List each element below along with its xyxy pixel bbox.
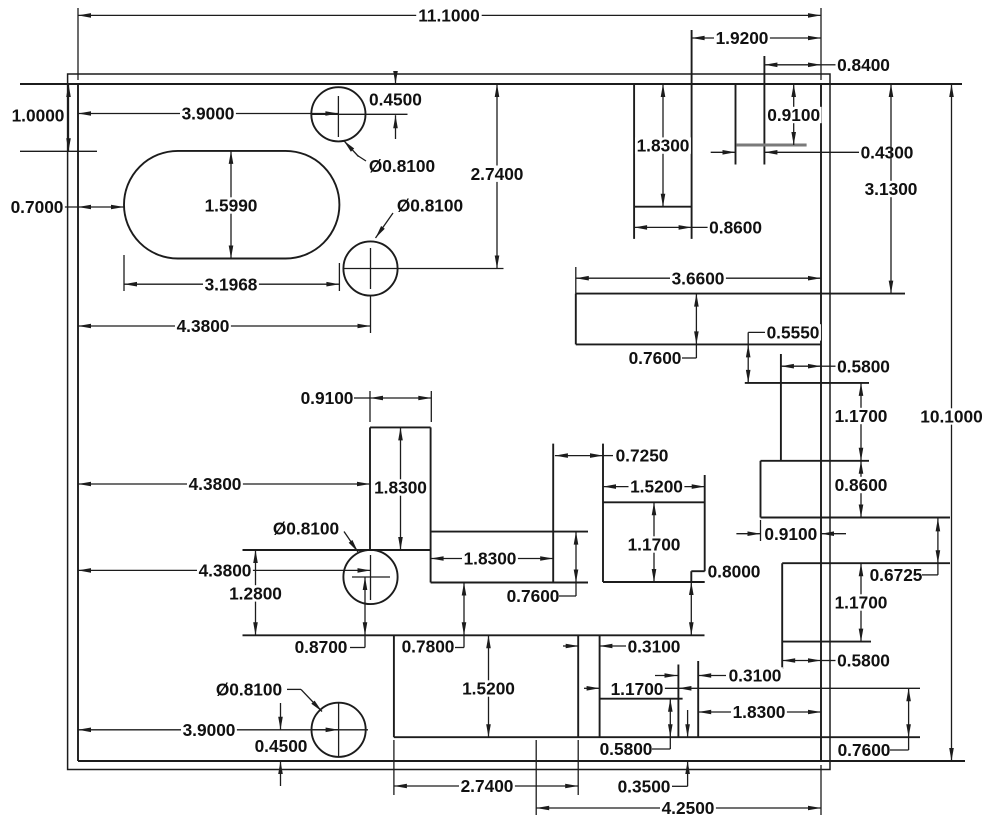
- svg-text:1.5990: 1.5990: [205, 196, 258, 216]
- svg-text:0.9100: 0.9100: [764, 524, 817, 544]
- dim 3.6600: [576, 268, 821, 288]
- dim 1.1700 right A: [833, 383, 889, 461]
- svg-text:0.9100: 0.9100: [767, 105, 820, 125]
- svg-text:1.8300: 1.8300: [374, 478, 427, 498]
- ext below bottom pocket right: [577, 740, 579, 795]
- dim 2.7400 left: [469, 84, 525, 269]
- dim 0.9100 mid: [299, 388, 431, 408]
- svg-text:0.3100: 0.3100: [729, 666, 782, 686]
- ext below bottom pocket left: [393, 740, 395, 795]
- dim 1.5200 mid rect: [603, 477, 705, 497]
- dim 0.8400: [764, 55, 891, 75]
- dim 0.8600 top cutout: [634, 218, 763, 238]
- svg-text:1.8300: 1.8300: [733, 702, 786, 722]
- ext for 4.3800 first: [370, 296, 372, 333]
- right rect B left edge: [760, 461, 762, 518]
- dim 1.1700 right C: [833, 563, 889, 641]
- wide pocket bottom edge: [576, 343, 821, 345]
- dim 1.8300 L-pocket horizontal: [431, 549, 554, 569]
- C4 center mark horizontal: [311, 729, 368, 731]
- extension below part right edge: [820, 765, 822, 815]
- dim 0.5800 step block: [598, 699, 673, 759]
- top cutout left edge: [633, 84, 635, 239]
- dim 0.3100 first: [563, 637, 682, 657]
- dim 0.4500 bottom: [253, 703, 309, 786]
- obround slot: [124, 151, 339, 259]
- svg-text:4.2500: 4.2500: [662, 798, 715, 818]
- svg-text:0.8600: 0.8600: [835, 475, 888, 495]
- dim 0.9100 top right: [766, 84, 822, 145]
- top slit right line with ext: [763, 56, 765, 165]
- dim 0.7800: [400, 583, 466, 657]
- dim 1.0000: [10, 84, 71, 151]
- dim 1.2800: [228, 550, 284, 635]
- leader Ø0.8100 C2: [376, 196, 465, 238]
- dim 0.7250: [555, 446, 670, 466]
- leader Ø0.8100 C3: [271, 519, 358, 552]
- svg-text:1.1700: 1.1700: [611, 679, 664, 699]
- top cutout bottom edge: [634, 206, 692, 208]
- mid rect top edge: [603, 501, 705, 503]
- mid rect left edge with ext: [602, 444, 604, 582]
- svg-text:0.3100: 0.3100: [628, 637, 681, 657]
- svg-text:0.7600: 0.7600: [507, 586, 560, 606]
- mid rect right edge with ext: [704, 475, 706, 571]
- svg-text:0.8600: 0.8600: [709, 218, 762, 238]
- svg-text:0.5800: 0.5800: [837, 356, 890, 376]
- step block left edge: [599, 635, 601, 737]
- dim 3.9000 bottom: [78, 720, 339, 740]
- ext below slot right: [338, 263, 340, 291]
- svg-text:3.1300: 3.1300: [865, 179, 918, 199]
- ext below right rect B left: [760, 520, 762, 541]
- wide pocket top edge with ext: [576, 293, 905, 295]
- C1 center mark horizontal / ext: [311, 113, 408, 115]
- dim 2.7400 bottom: [394, 776, 578, 796]
- svg-text:Ø0.8100: Ø0.8100: [369, 156, 435, 176]
- dim 0.8700: [293, 577, 367, 657]
- dim 0.6725: [868, 518, 940, 585]
- C3 center mark horizontal: [352, 576, 390, 578]
- svg-text:1.2800: 1.2800: [229, 584, 282, 604]
- ext below slot left: [123, 255, 125, 291]
- svg-text:0.6725: 0.6725: [870, 565, 923, 585]
- svg-text:3.6600: 3.6600: [672, 268, 725, 288]
- circle hole C3: [343, 550, 397, 604]
- dim 0.5800 right top: [781, 356, 892, 376]
- svg-text:0.7600: 0.7600: [838, 740, 891, 760]
- svg-text:0.4300: 0.4300: [861, 142, 914, 162]
- svg-text:0.3500: 0.3500: [618, 777, 671, 797]
- ext above L-pocket right: [430, 391, 432, 422]
- svg-text:1.5200: 1.5200: [630, 477, 683, 497]
- drawing frame border: [68, 74, 830, 770]
- svg-text:4.3800: 4.3800: [177, 316, 230, 336]
- L-pocket vertical left edge: [369, 427, 371, 550]
- C2 center mark horizontal / ext: [343, 268, 504, 270]
- C1 center mark vertical: [337, 96, 339, 137]
- L-pocket vertical right edge: [430, 427, 432, 582]
- svg-text:Ø0.8100: Ø0.8100: [216, 680, 282, 700]
- circle hole C2: [343, 241, 397, 295]
- svg-text:0.5550: 0.5550: [767, 323, 820, 343]
- dim 4.2500: [536, 798, 821, 818]
- part left edge: [77, 84, 79, 761]
- svg-text:2.7400: 2.7400: [471, 164, 524, 184]
- svg-text:1.5200: 1.5200: [462, 679, 515, 699]
- dim 0.4300: [711, 142, 915, 162]
- svg-text:1.8300: 1.8300: [464, 549, 517, 569]
- L-pocket horizontal bottom edge with ext: [431, 582, 588, 584]
- svg-text:4.3800: 4.3800: [199, 561, 252, 581]
- dim 1.5200 bottom pocket: [461, 635, 517, 737]
- right rect C bottom edge with ext: [782, 641, 871, 643]
- svg-text:1.1700: 1.1700: [835, 406, 888, 426]
- svg-text:0.7000: 0.7000: [11, 197, 64, 217]
- step block right vertical: [697, 661, 699, 737]
- svg-text:1.9200: 1.9200: [716, 28, 769, 48]
- bottom pocket bottom line with ext: [394, 736, 920, 738]
- L-pocket vertical top edge: [370, 426, 431, 428]
- svg-text:0.4500: 0.4500: [369, 89, 422, 109]
- svg-text:1.8300: 1.8300: [637, 136, 690, 156]
- ext for 4.25 dim: [535, 740, 537, 815]
- leader Ø0.8100 C1: [344, 141, 437, 177]
- mid rect notch vertical: [690, 571, 692, 582]
- leader Ø0.8100 C4: [214, 680, 322, 712]
- dim 1.1700 mid rect: [626, 502, 682, 582]
- right rect A top edge with ext: [745, 382, 869, 384]
- svg-text:1.0000: 1.0000: [12, 106, 65, 126]
- svg-text:0.4500: 0.4500: [255, 736, 308, 756]
- bottom pocket left edge: [393, 635, 395, 737]
- dim 3.9000 top: [78, 104, 338, 124]
- wide pocket left edge: [575, 294, 577, 345]
- svg-text:0.5800: 0.5800: [837, 651, 890, 671]
- dim 1.5990 slot height: [203, 151, 259, 259]
- dim 0.3100 second: [655, 666, 783, 686]
- circle hole C4: [312, 703, 366, 757]
- svg-text:0.5800: 0.5800: [600, 739, 653, 759]
- C2 center mark vertical: [370, 248, 372, 289]
- step block mid vertical: [677, 665, 679, 738]
- dim 0.8000 below notch: [689, 582, 694, 635]
- bottom pocket top ledge line with ext: [243, 634, 705, 636]
- dim 0.9100 right: [736, 524, 846, 544]
- svg-text:0.7250: 0.7250: [616, 446, 669, 466]
- dim 11.1000 overall width: [78, 6, 821, 26]
- dim 4.3800 first: [78, 316, 371, 336]
- extension above part right edge: [820, 8, 822, 80]
- dim 0.3500: [616, 710, 690, 797]
- ext above wide pocket left: [575, 267, 577, 294]
- bottom pocket right edge: [577, 635, 579, 737]
- svg-text:1.1700: 1.1700: [835, 593, 888, 613]
- svg-text:3.9000: 3.9000: [182, 104, 235, 124]
- svg-text:4.3800: 4.3800: [189, 474, 242, 494]
- step block top edge: [600, 698, 683, 700]
- circle hole C1: [311, 87, 365, 141]
- svg-text:0.8700: 0.8700: [295, 637, 348, 657]
- part bottom edge with extension: [78, 760, 965, 762]
- dim 0.7600 bottom right: [836, 688, 911, 760]
- dim 4.3800 second: [78, 474, 370, 494]
- svg-text:0.7800: 0.7800: [402, 637, 455, 657]
- top cutout right edge with extensions: [691, 30, 693, 239]
- dim 10.1000 overall height: [919, 84, 985, 761]
- dim 0.5800 right mid: [782, 651, 891, 671]
- ext above L-pocket left: [369, 391, 371, 422]
- dim 1.8300 bottom right: [698, 702, 821, 722]
- svg-text:2.7400: 2.7400: [461, 776, 514, 796]
- ext line for 1.0000 bottom: [20, 150, 97, 152]
- C3 center mark vertical: [370, 555, 372, 600]
- svg-text:0.7600: 0.7600: [629, 348, 682, 368]
- extension above part left edge: [77, 8, 79, 80]
- thick gray slit line: [737, 144, 807, 147]
- dim 1.9200: [692, 28, 821, 48]
- top slit left line: [735, 85, 737, 165]
- svg-text:0.9100: 0.9100: [301, 388, 354, 408]
- svg-text:Ø0.8100: Ø0.8100: [397, 196, 463, 216]
- dim 1.1700 step block: [584, 679, 920, 699]
- right rect B bottom edge with ext: [761, 517, 951, 519]
- dim 0.8600 right B: [833, 461, 889, 518]
- right rect A bottom / rect B top with ext: [761, 460, 870, 462]
- part right edge: [820, 84, 822, 761]
- dim 3.1968: [124, 274, 339, 294]
- svg-text:11.1000: 11.1000: [418, 6, 480, 26]
- svg-text:3.9000: 3.9000: [183, 720, 236, 740]
- mid rect bottom edge: [603, 581, 705, 583]
- part top edge with extensions: [20, 83, 962, 85]
- svg-text:0.8000: 0.8000: [708, 562, 761, 582]
- L-pocket horizontal right edge with ext: [552, 444, 554, 583]
- svg-text:0.8400: 0.8400: [837, 55, 890, 75]
- dim 1.8300 L-pocket vertical: [373, 427, 429, 550]
- svg-text:1.1700: 1.1700: [628, 535, 681, 555]
- dim 1.8300 top cutout: [635, 84, 691, 207]
- dim 0.7000: [9, 197, 124, 217]
- dim 0.4500 top: [367, 71, 423, 139]
- dim 0.7600 wide pocket: [627, 294, 699, 369]
- L-pocket bottom edge with left ext: [243, 549, 431, 551]
- dim 3.1300: [863, 84, 919, 294]
- svg-text:Ø0.8100: Ø0.8100: [273, 519, 339, 539]
- svg-text:10.1000: 10.1000: [920, 407, 982, 427]
- right rect A left edge with ext: [780, 354, 782, 461]
- right rect C left edge with ext: [781, 563, 783, 669]
- L-pocket horizontal top edge with ext: [431, 531, 588, 533]
- mid rect notch horizontal: [691, 570, 704, 572]
- label 0.8000 notch: [706, 562, 762, 582]
- C4 center mark vertical: [338, 703, 340, 757]
- right rect C top edge with ext: [782, 562, 950, 564]
- dim 0.7600 L-pocket: [505, 532, 578, 607]
- dim 0.5550: [746, 323, 821, 383]
- dim 4.3800 third: [78, 561, 371, 581]
- svg-text:3.1968: 3.1968: [205, 274, 258, 294]
